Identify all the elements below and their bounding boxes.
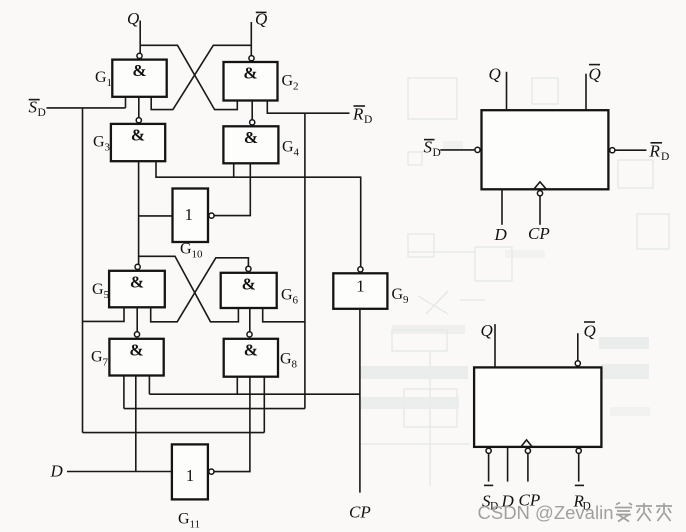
svg-text:&: & — [244, 340, 258, 359]
label G8 — [280, 351, 298, 371]
NAND gate G8 — [224, 339, 278, 377]
svg-text:D: D — [661, 151, 669, 163]
label G3 — [93, 134, 111, 154]
flip-flop symbol U2 body — [474, 367, 601, 447]
svg-text:CP: CP — [349, 503, 371, 522]
node U2 Q pin — [481, 321, 496, 367]
NAND gate G5 — [109, 271, 165, 308]
output bubble G2 — [249, 56, 254, 61]
output bubble G4 — [250, 120, 255, 125]
svg-text:&: & — [244, 128, 258, 147]
svg-text:&: & — [131, 126, 145, 145]
svg-text:2: 2 — [293, 81, 299, 93]
wire CP line to G7 and G8 — [149, 376, 360, 395]
svg-text:G: G — [178, 511, 190, 528]
output bubble G7 — [134, 332, 139, 337]
net CP input — [349, 309, 371, 522]
wire G7 output to G5 input — [136, 307, 138, 332]
svg-text:G: G — [392, 286, 404, 303]
svg-text:&: & — [132, 61, 146, 80]
node U2 SD-bar pin — [482, 448, 498, 512]
wire G5 crossover to G6 input — [139, 256, 239, 322]
svg-text:1: 1 — [356, 277, 365, 296]
node U1 SD-bar pin — [424, 138, 481, 160]
output bubble G5 — [135, 264, 140, 269]
label G6 — [281, 287, 299, 307]
svg-text:R: R — [352, 105, 364, 124]
output bubble G9 — [358, 267, 363, 272]
svg-text:CP: CP — [528, 224, 550, 243]
node U2 D pin — [501, 447, 515, 511]
svg-text:3: 3 — [105, 142, 111, 154]
wire CP-inverted line A (G3,G4 inputs from G9) — [156, 161, 361, 267]
svg-text:Q: Q — [584, 322, 596, 341]
inverter G9 — [333, 273, 387, 309]
node U2 RD-bar pin — [573, 448, 591, 512]
wire G5 left input from SD rail — [83, 307, 125, 321]
inverter G10 — [173, 189, 209, 243]
svg-text:G: G — [282, 73, 294, 90]
svg-text:D: D — [364, 114, 372, 126]
label G1 — [95, 69, 112, 89]
wire G10 input branch — [139, 215, 173, 217]
svg-text:Q: Q — [481, 321, 493, 340]
wire Q crossover to G2 input — [140, 45, 237, 109]
wire G7 left input from RD line — [123, 376, 125, 409]
svg-text:1: 1 — [107, 77, 113, 89]
wire G8 middle input from G11 output — [214, 377, 250, 472]
svg-text:Q: Q — [589, 65, 601, 84]
svg-text:D: D — [433, 147, 441, 159]
label G11 — [178, 511, 200, 531]
svg-text:G: G — [93, 134, 105, 151]
svg-text:9: 9 — [403, 294, 409, 306]
wire G7 middle input from D line — [135, 376, 137, 472]
node Qbar terminal — [251, 10, 267, 56]
svg-text:&: & — [242, 274, 256, 293]
NAND gate G2 — [224, 62, 278, 101]
node U1 RD-bar pin — [610, 142, 670, 164]
wire SD-bar vertical rail — [82, 108, 84, 433]
svg-text:CSDN @Zevalin: CSDN @Zevalin — [478, 502, 614, 523]
svg-text:11: 11 — [190, 519, 201, 531]
svg-text:G: G — [91, 349, 103, 366]
NAND gate G6 — [221, 273, 277, 308]
net SD-bar input — [29, 97, 126, 119]
svg-text:D: D — [38, 107, 46, 119]
svg-text:1: 1 — [186, 466, 195, 485]
svg-text:5: 5 — [104, 289, 110, 301]
svg-text:G: G — [280, 351, 292, 368]
label G2 — [282, 73, 299, 93]
output bubble G6 — [246, 266, 251, 271]
svg-text:Q: Q — [127, 9, 139, 28]
node U1 Q pin — [489, 65, 507, 111]
svg-text:10: 10 — [192, 249, 204, 261]
node U1 CP pin with dynamic indicator — [528, 182, 550, 243]
wire RD horizontal line to G7 — [124, 408, 305, 410]
wire G10 output to G4 input — [214, 163, 250, 215]
svg-text:D: D — [50, 462, 64, 481]
net D input — [50, 462, 172, 481]
svg-text:4: 4 — [294, 147, 300, 159]
node U2 CP pin with dynamic indicator — [519, 440, 541, 510]
svg-text:G: G — [281, 287, 293, 304]
node U1 D pin — [494, 189, 508, 244]
label G5 — [92, 281, 110, 301]
svg-text:R: R — [649, 142, 661, 161]
wire G6 crossover to G5 input — [151, 258, 249, 322]
label G7 — [91, 349, 109, 369]
NAND gate G7 — [109, 339, 163, 376]
net RD-bar input — [267, 101, 372, 126]
NAND gate G4 — [223, 126, 278, 163]
wire SD horizontal bottom line — [83, 432, 265, 434]
node Q terminal — [127, 9, 140, 53]
background ghost shapes (page bleed-through) — [360, 78, 669, 486]
svg-text:Q: Q — [489, 65, 501, 84]
inverter G11 — [172, 444, 208, 499]
node U2 Qbar pin with bubble — [575, 322, 596, 367]
wire RD-bar vertical rail — [304, 113, 306, 408]
NAND gate G1 — [112, 60, 166, 97]
wire G3 long vertical to G5 — [138, 161, 140, 264]
wire G6 right input from RD rail — [263, 308, 305, 322]
svg-text:8: 8 — [292, 359, 298, 371]
label G9 — [392, 286, 410, 306]
svg-text:G: G — [282, 139, 294, 156]
output bubble G3 — [136, 118, 141, 123]
output bubble G1 — [137, 53, 142, 58]
svg-text:D: D — [494, 225, 508, 244]
flip-flop symbol U1 body — [482, 110, 609, 189]
wire Qbar crossover to G1 input — [151, 45, 251, 109]
output bubble G10 — [209, 213, 214, 218]
svg-text:G: G — [92, 281, 104, 298]
label G4 — [282, 139, 300, 159]
svg-text:G: G — [95, 69, 107, 86]
svg-text:&: & — [130, 272, 144, 291]
output bubble G8 — [247, 332, 252, 337]
label G10 — [180, 241, 203, 261]
svg-text:6: 6 — [293, 295, 299, 307]
svg-text:&: & — [129, 340, 143, 359]
svg-text:1: 1 — [184, 205, 193, 224]
output bubble G11 — [209, 469, 214, 474]
svg-text:7: 7 — [103, 357, 109, 369]
wire G8 right input from SD line — [263, 377, 265, 433]
node U1 Qbar pin — [586, 65, 601, 111]
svg-text:G: G — [180, 241, 192, 258]
svg-text:&: & — [243, 64, 257, 83]
NAND gate G3 — [111, 124, 165, 161]
wire G4 output to G2 input — [251, 101, 253, 120]
wire G8 output to G6 input — [249, 308, 251, 332]
wire G3 output to G1 input — [138, 97, 140, 117]
